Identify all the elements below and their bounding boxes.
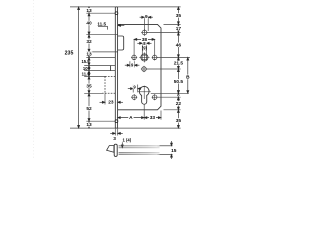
svg-text:32: 32 (86, 39, 92, 45)
svg-text:9: 9 (145, 14, 148, 20)
svg-text:(9): (9) (142, 45, 148, 50)
svg-text:B: B (186, 75, 190, 81)
svg-text:11.5: 11.5 (82, 72, 91, 77)
svg-text:13: 13 (86, 122, 92, 128)
svg-text:15.5: 15.5 (81, 59, 90, 64)
svg-text:17: 17 (176, 26, 182, 32)
svg-text:10: 10 (83, 66, 88, 71)
svg-text:35: 35 (176, 118, 182, 124)
svg-text:40: 40 (86, 21, 92, 27)
svg-text:21.5: 21.5 (174, 61, 184, 67)
svg-text:13: 13 (86, 8, 92, 14)
svg-text:13: 13 (86, 51, 92, 57)
svg-text:52: 52 (86, 106, 92, 112)
svg-text:235: 235 (65, 51, 74, 57)
svg-text:35: 35 (176, 13, 182, 19)
svg-text:15: 15 (171, 148, 177, 154)
svg-text:23: 23 (108, 100, 114, 106)
svg-text:1 (4): 1 (4) (123, 137, 132, 142)
svg-text:11.5: 11.5 (97, 21, 106, 26)
svg-text:A: A (129, 115, 133, 121)
svg-text:33: 33 (150, 115, 156, 121)
svg-text:22: 22 (176, 101, 182, 107)
svg-text:3: 3 (113, 136, 116, 142)
svg-text:46: 46 (176, 42, 182, 48)
svg-text:50.5: 50.5 (174, 79, 184, 85)
svg-text:35: 35 (86, 83, 92, 89)
